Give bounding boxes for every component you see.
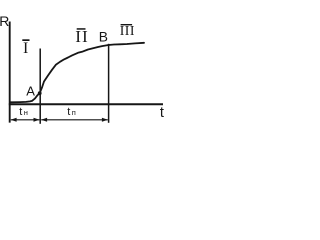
- svg-text:п: п: [72, 108, 76, 117]
- t_n right arrowhead: [34, 118, 40, 122]
- svg-text:н: н: [24, 108, 28, 117]
- dimension t_n (heating) shaft: [11, 119, 40, 121]
- dimension t_p (process) shaft: [41, 119, 108, 121]
- svg-text:t: t: [19, 106, 22, 118]
- svg-text:t: t: [160, 105, 164, 121]
- x-axis (t axis): [9, 103, 163, 105]
- curve R(t): [11, 43, 145, 103]
- point A dot: [38, 91, 42, 95]
- svg-text:II: II: [75, 27, 89, 46]
- boundary line I/II through A: [39, 49, 41, 124]
- t_p left arrowhead: [41, 118, 47, 122]
- svg-text:B: B: [99, 29, 108, 44]
- svg-text:R: R: [0, 13, 9, 29]
- svg-text:A: A: [26, 84, 35, 99]
- t_p right arrowhead: [102, 118, 108, 122]
- y-axis (R axis): [9, 22, 11, 123]
- t_n left arrowhead: [11, 118, 17, 122]
- svg-text:t: t: [67, 106, 70, 118]
- boundary line II/III through B: [108, 44, 110, 123]
- svg-text:I: I: [23, 40, 28, 57]
